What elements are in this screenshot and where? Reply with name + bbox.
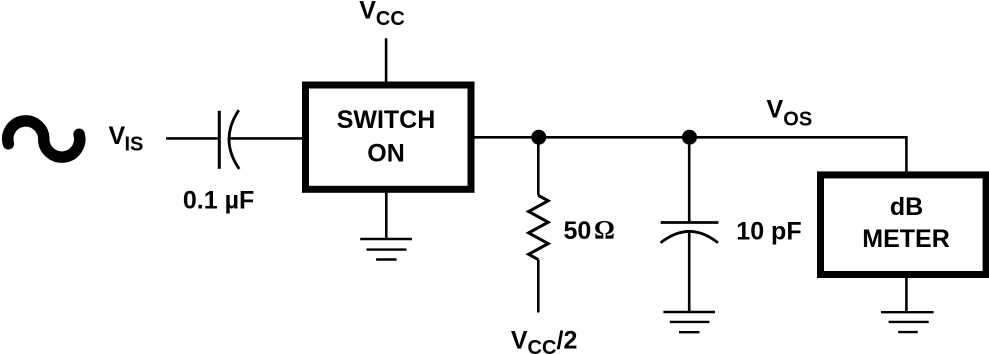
label VOS — [767, 96, 813, 131]
svg-text:V: V — [359, 0, 376, 25]
svg-text:METER: METER — [862, 225, 950, 253]
label SWITCH ON — [337, 106, 436, 167]
node junction dot A — [531, 130, 546, 145]
svg-text:Ω: Ω — [594, 215, 615, 244]
label dB METER — [862, 193, 950, 253]
capacitor C2 10pF — [661, 223, 719, 243]
wire switch box to ground — [385, 193, 388, 239]
ground under switch box — [360, 239, 412, 260]
capacitor C1 0.1uF — [219, 110, 239, 169]
svg-text:V: V — [109, 122, 126, 150]
svg-text:ON: ON — [367, 139, 405, 167]
svg-text:CC: CC — [376, 8, 405, 30]
switch-on box U1 — [306, 85, 472, 189]
svg-text:V: V — [511, 326, 528, 354]
svg-text:0.1 µF: 0.1 µF — [183, 187, 254, 215]
wire C1 to switch box — [230, 137, 305, 140]
dB meter box U2 — [821, 175, 987, 275]
label VIS — [109, 122, 144, 156]
label VCC/2 — [511, 326, 577, 354]
wire node B to capacitor C2 — [688, 137, 691, 222]
wire capacitor C2 to ground — [688, 232, 691, 313]
wire switch box output to dB meter — [471, 137, 906, 171]
svg-text:SWITCH: SWITCH — [337, 106, 436, 134]
label 50 ohm — [564, 215, 615, 245]
wire dB meter to ground — [905, 278, 908, 312]
wire resistor to VCC/2 — [537, 260, 540, 313]
node junction dot B — [682, 130, 697, 145]
wire node A to resistor — [537, 137, 540, 195]
wire input to C1 — [166, 137, 219, 140]
resistor R1 50 ohm — [529, 195, 549, 259]
ground under capacitor C2 — [663, 312, 715, 332]
AC source sine symbol — [8, 121, 80, 157]
svg-text:/2: /2 — [557, 326, 578, 354]
svg-text:dB: dB — [890, 193, 923, 221]
svg-text:50: 50 — [564, 217, 592, 245]
ground under dB meter — [881, 312, 934, 332]
svg-text:IS: IS — [125, 134, 144, 156]
svg-text:V: V — [767, 96, 784, 124]
wire VCC to switch box — [385, 38, 388, 85]
svg-text:OS: OS — [783, 108, 812, 130]
svg-text:CC: CC — [528, 337, 557, 354]
svg-text:10 pF: 10 pF — [736, 217, 801, 245]
label VCC — [359, 0, 405, 30]
